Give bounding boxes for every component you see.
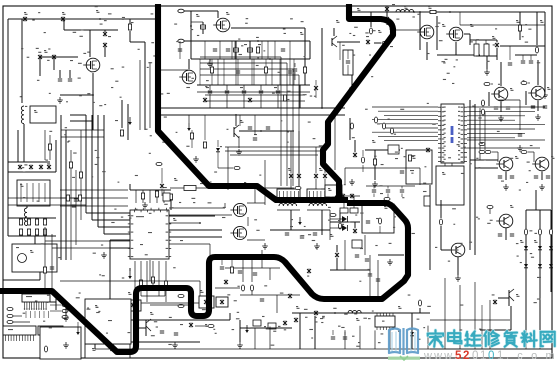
svg-text:52: 52 [455, 350, 471, 362]
svg-text:1: 1 [497, 350, 505, 362]
svg-text:. c o m: . c o m [506, 350, 557, 362]
svg-text:01: 01 [472, 350, 488, 362]
svg-text:www.: www. [423, 350, 459, 362]
svg-text:0: 0 [488, 350, 496, 362]
